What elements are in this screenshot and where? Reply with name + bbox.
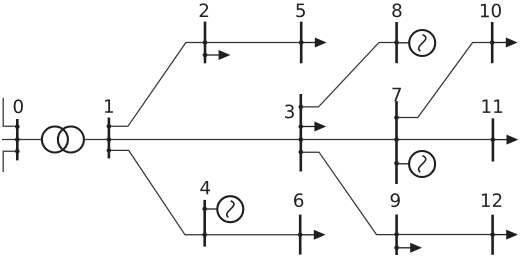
wire 3-7 <box>301 139 397 141</box>
wire ext-grid stub middle at bus 0 <box>2 139 17 141</box>
wire 3-8 <box>301 43 397 107</box>
label 4 <box>200 181 210 194</box>
bus 3 busbar <box>299 94 302 172</box>
transformer T0-1 <box>42 127 84 153</box>
bus 7 busbar <box>395 101 398 184</box>
load at bus 12 <box>493 230 518 240</box>
label 1 <box>105 99 113 112</box>
load at bus 11 <box>494 135 519 145</box>
wire 1-2 <box>109 43 205 127</box>
wire ext-grid stub bottom at bus 0 <box>3 151 17 172</box>
bus 8 busbar <box>395 22 398 63</box>
bus 5 busbar <box>300 22 303 64</box>
generator at bus 7 <box>397 151 435 177</box>
junction dots bus 0 <box>15 124 20 153</box>
bus 0 busbar <box>16 119 19 160</box>
junction dot bus 8 <box>394 40 399 45</box>
bus 12 busbar <box>491 215 494 255</box>
label 9 <box>391 193 400 207</box>
junction dots bus 4 <box>202 207 207 237</box>
generator at bus 8 <box>397 30 435 56</box>
wire bus0 to transformer <box>17 139 42 141</box>
label 7 <box>392 88 401 101</box>
load at bus 10 <box>493 38 518 48</box>
wire 2-5 <box>205 42 301 44</box>
wire 1-4 <box>109 150 205 234</box>
junction dots bus 2 <box>203 40 208 57</box>
junction dots bus 9 <box>394 232 399 250</box>
load at bus 2 <box>206 50 231 60</box>
junction dot bus 6 <box>298 233 303 238</box>
label 2 <box>200 3 208 17</box>
load at bus 5 <box>302 38 327 48</box>
wire 7-11 <box>397 139 493 141</box>
label 10 <box>481 4 501 18</box>
wire 7-10 <box>397 43 493 118</box>
generator at bus 4 <box>205 196 243 222</box>
load at bus 3 <box>302 122 327 132</box>
junction dot bus 12 <box>490 232 495 237</box>
bus 6 busbar <box>299 215 302 255</box>
bus 1 busbar <box>108 118 111 159</box>
junction dots bus 7 <box>394 115 399 165</box>
label 6 <box>294 193 303 207</box>
bus 10 busbar <box>491 22 494 63</box>
junction dots bus 1 <box>107 124 112 153</box>
bus 9 busbar <box>395 215 398 256</box>
load at bus 6 <box>301 230 326 240</box>
bus 2 busbar <box>204 22 207 64</box>
junction dot bus 11 <box>491 137 496 142</box>
label 12 <box>482 193 501 207</box>
junction dot bus 5 <box>299 40 304 45</box>
wire ext-grid stub top at bus 0 <box>3 98 17 127</box>
wire 4-6 <box>205 234 301 236</box>
junction dot bus 10 <box>490 40 495 45</box>
wire 1-3 <box>109 139 301 141</box>
wire 3-9 <box>301 152 397 234</box>
label 8 <box>392 3 401 17</box>
load at bus 9 <box>397 243 422 253</box>
wire 9-12 <box>397 234 493 236</box>
junction dots bus 3 <box>299 105 304 155</box>
label 0 <box>14 99 23 113</box>
label 5 <box>296 4 305 18</box>
bus 11 busbar <box>492 118 495 161</box>
wire transformer to bus1 <box>84 139 109 141</box>
label 3 <box>285 105 294 119</box>
bus 4 busbar <box>203 200 206 247</box>
label 11 <box>483 100 503 113</box>
